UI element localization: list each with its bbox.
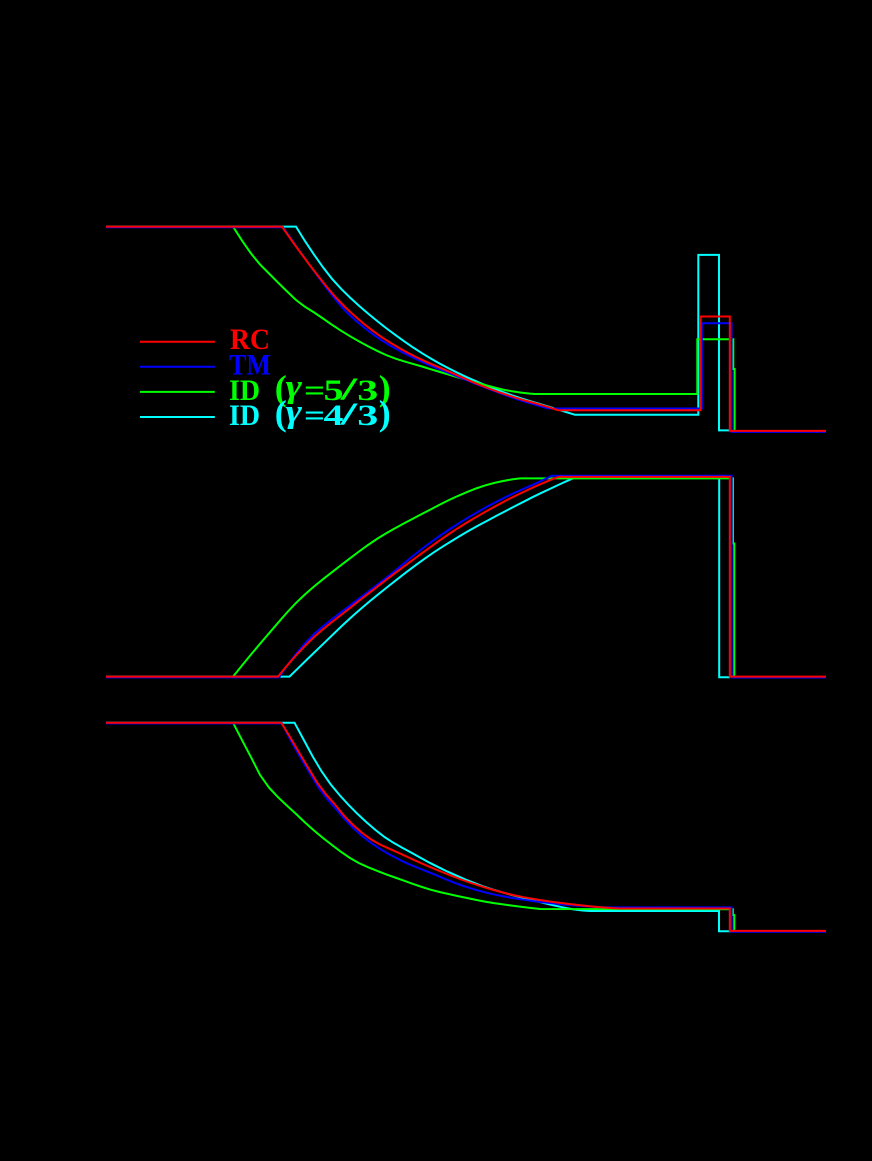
legend red RC line	[140, 341, 215, 343]
wire green ID gamma=5/3 velocity curve panel2	[233, 478, 734, 676]
wire red RC density curve panel1	[106, 227, 826, 431]
legend label ID (gamma=4/3)	[229, 393, 391, 433]
legend green ID 5/3 line	[140, 391, 215, 393]
wire blue TM velocity curve panel2	[106, 476, 826, 678]
wire blue TM density curve panel1	[106, 227, 826, 432]
legend label ID (gamma=5/3)	[229, 368, 391, 408]
wire cyan ID gamma=4/3 pressure curve panel3	[106, 723, 731, 932]
legend blue TM line	[140, 366, 215, 368]
svg-text:): )	[379, 393, 391, 433]
svg-text:=: =	[304, 399, 325, 432]
svg-text:/: /	[339, 396, 359, 432]
wire green ID gamma=5/3 density curve panel1	[233, 227, 735, 431]
wire cyan ID gamma=4/3 density curve panel1	[106, 227, 731, 431]
wire red RC pressure curve panel3	[106, 723, 826, 931]
wire cyan ID gamma=4/3 velocity curve panel2	[106, 478, 730, 678]
legend cyan ID 4/3 line	[140, 416, 215, 418]
wire red RC velocity curve panel2	[106, 477, 826, 677]
wire green ID gamma=5/3 pressure curve panel3	[233, 723, 734, 931]
svg-text:ID: ID	[229, 399, 260, 432]
svg-text:3: 3	[357, 399, 378, 432]
svg-text:γ: γ	[286, 394, 303, 430]
wire blue TM pressure curve panel3	[106, 723, 826, 931]
